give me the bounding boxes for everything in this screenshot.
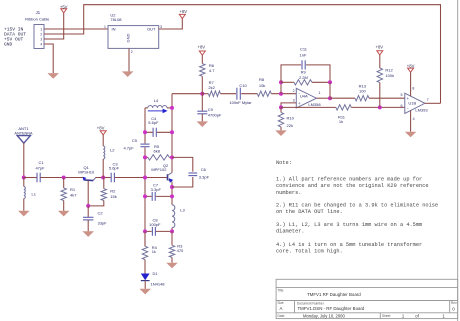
svg-text:C6: C6 <box>201 167 207 172</box>
node C7 left <box>143 194 147 198</box>
ground R3 <box>166 263 178 269</box>
ground U1B <box>405 132 417 138</box>
power +8V R6 <box>199 51 205 55</box>
wire U4A output <box>316 97 330 99</box>
svg-text:2.2M: 2.2M <box>299 75 308 80</box>
svg-text:C2: C2 <box>98 210 104 215</box>
svg-text:15k: 15k <box>110 194 116 199</box>
power +8V R12 <box>377 51 383 55</box>
capacitor C3 5.6pF <box>110 173 112 183</box>
ground L1 <box>18 211 30 217</box>
svg-text:J1: J1 <box>36 10 41 15</box>
svg-text:1k: 1k <box>339 119 343 124</box>
resistor R1 4k7 <box>63 178 65 189</box>
node C7 right <box>170 194 174 198</box>
power +5V <box>61 9 67 13</box>
diode D1 1N4148 <box>141 274 150 281</box>
node C4 right <box>170 130 174 134</box>
node output/x330 <box>328 96 332 100</box>
svg-text:LM393: LM393 <box>415 108 428 113</box>
capacitor C11 1nF loop <box>281 65 330 82</box>
svg-text:3: 3 <box>40 37 42 41</box>
svg-text:GND: GND <box>4 42 13 48</box>
node C4 left <box>143 130 147 134</box>
svg-text:R2: R2 <box>110 188 116 193</box>
svg-text:6: 6 <box>401 104 403 108</box>
node C8 right <box>170 229 174 233</box>
resistor R8 10k <box>241 93 257 95</box>
svg-text:+8V: +8V <box>376 45 384 50</box>
wire U4A pin3 <box>281 103 296 108</box>
tank left rail <box>144 108 146 246</box>
svg-text:D1: D1 <box>153 271 159 276</box>
wire DATA OUT loop top <box>44 5 441 104</box>
svg-text:4700pF: 4700pF <box>208 113 222 118</box>
svg-text:Sheet: Sheet <box>382 314 390 318</box>
wire RF input row <box>24 177 37 179</box>
svg-text:2: 2 <box>40 32 42 36</box>
svg-text:Title: Title <box>278 288 284 292</box>
svg-text:C10: C10 <box>239 83 247 88</box>
svg-text:100: 100 <box>359 89 366 94</box>
resistor R3 470 <box>171 231 173 245</box>
regulator U2 78L08 <box>108 26 159 49</box>
node feedback left <box>279 80 283 84</box>
resistor R7 2k2 <box>202 93 208 95</box>
ground J1 <box>47 73 59 79</box>
resistor R2 15k <box>103 178 105 189</box>
resistor R11 1k row <box>281 106 336 108</box>
wire U2 GND <box>128 49 130 72</box>
svg-text:of: of <box>415 314 419 319</box>
svg-text:3.) L1, L2, L3 are 3 turns 1mm: 3.) L1, L2, L3 are 3 turns 1mm wire on a… <box>276 222 422 228</box>
svg-text:5.6pF: 5.6pF <box>148 120 159 125</box>
svg-text:Rev: Rev <box>451 301 457 305</box>
node Q2 gate <box>143 176 147 180</box>
resistor R9 2.2M <box>294 80 312 85</box>
svg-text:L3: L3 <box>180 207 185 212</box>
resistor R6 4.7 <box>201 55 203 63</box>
wire C3 to tank <box>115 177 145 179</box>
ground U2 <box>122 71 134 77</box>
svg-text:47pF: 47pF <box>35 165 45 170</box>
node R9 right <box>328 80 332 84</box>
wire R8 node up to feedback <box>280 82 282 93</box>
ground D1 <box>139 289 151 295</box>
resistor R5 6k8 <box>148 155 170 160</box>
svg-text:4.7pF: 4.7pF <box>123 146 134 151</box>
node antenna/L1 <box>22 176 26 180</box>
resistor R10 22k <box>280 107 282 112</box>
capacitor C8 100pF <box>145 230 172 232</box>
svg-text:GND: GND <box>126 33 131 42</box>
svg-text:78L08: 78L08 <box>110 17 122 22</box>
inductor L3 <box>172 205 175 228</box>
capacitor C6 3.3pF loop <box>172 157 193 187</box>
svg-text:22k: 22k <box>287 123 293 128</box>
L4 tuning arrow <box>148 110 163 112</box>
svg-text:1N4148: 1N4148 <box>151 282 166 287</box>
page border right <box>457 0 459 321</box>
svg-text:33pF: 33pF <box>98 220 108 225</box>
node L4 right <box>170 106 174 110</box>
svg-text:R1: R1 <box>70 187 76 192</box>
svg-text:3.3pF: 3.3pF <box>151 187 162 192</box>
svg-text:convience and are not the orig: convience and are not the original K20 r… <box>276 183 429 189</box>
ground C2 <box>82 231 94 237</box>
wire +5V OUT <box>44 13 64 39</box>
svg-text:5.6pF: 5.6pF <box>109 166 120 171</box>
svg-text:+8V: +8V <box>180 9 188 14</box>
svg-text:100k: 100k <box>385 73 394 78</box>
node A detector <box>200 92 204 96</box>
svg-text:1: 1 <box>104 25 106 29</box>
svg-text:U1B: U1B <box>408 100 416 105</box>
svg-text:R8: R8 <box>259 77 265 82</box>
node L2/collector <box>101 176 105 180</box>
capacitor C9 4700pF <box>201 94 203 111</box>
svg-text:+: + <box>298 101 301 106</box>
svg-text:R10: R10 <box>287 116 295 121</box>
svg-text:numbers.: numbers. <box>276 190 301 196</box>
connector J1 Ribbon Cable <box>34 25 44 49</box>
svg-text:TMFV1.DSN - RF Daughter Board: TMFV1.DSN - RF Daughter Board <box>298 306 365 311</box>
svg-text:-: - <box>407 106 409 111</box>
node Q2 source <box>170 185 174 189</box>
node R8 / pin2 <box>279 92 283 96</box>
svg-text:+8V: +8V <box>198 44 206 49</box>
svg-text:5: 5 <box>401 93 403 97</box>
capacitor C7 3.3pF <box>145 195 172 197</box>
svg-text:7: 7 <box>427 98 429 102</box>
tank right rail <box>171 94 173 205</box>
op-amp U4A LM358 <box>296 88 316 108</box>
wire output row to R13 <box>330 97 355 99</box>
svg-text:2k2: 2k2 <box>208 85 215 90</box>
wire U1B vcc <box>410 72 412 96</box>
svg-text:L1: L1 <box>32 191 37 196</box>
inductor L1 <box>23 178 25 187</box>
svg-text:3.3pF: 3.3pF <box>199 174 210 179</box>
svg-text:Monday, July 10, 2000: Monday, July 10, 2000 <box>303 314 345 319</box>
wire Q1 collector row <box>95 177 110 179</box>
resistor R4 1k <box>144 231 146 246</box>
capacitor C1 47pF <box>36 173 38 183</box>
svg-text:C5: C5 <box>132 138 138 143</box>
svg-text:4k7: 4k7 <box>70 193 77 198</box>
svg-text:ANT1: ANT1 <box>18 126 29 131</box>
capacitor C2 33pF <box>87 206 89 217</box>
svg-text:2.) R11 can be changed to a 3.: 2.) R11 can be changed to a 3.9k to elim… <box>276 203 438 209</box>
ground C9 <box>197 121 209 127</box>
power +8V U2 <box>179 14 185 18</box>
resistor R13 100 <box>355 96 369 101</box>
node R5 left <box>143 155 147 159</box>
svg-text:6k8: 6k8 <box>153 148 160 153</box>
svg-text:C11: C11 <box>300 47 308 52</box>
svg-text:OUT: OUT <box>147 26 156 31</box>
node C8 left <box>143 229 147 233</box>
svg-text:1: 1 <box>442 314 445 319</box>
svg-text:L4: L4 <box>154 98 159 103</box>
svg-text:IN: IN <box>112 27 116 32</box>
svg-text:TMFV1 RF Daughter Board: TMFV1 RF Daughter Board <box>307 292 361 297</box>
wire J1 GND <box>44 44 53 73</box>
svg-text:core. Total 1cm high.: core. Total 1cm high. <box>276 249 343 255</box>
wire detector top row <box>172 93 202 95</box>
svg-text:1.) All part reference numbers: 1.) All part reference numbers are made … <box>276 177 422 183</box>
svg-text:MPF102: MPF102 <box>151 167 167 172</box>
svg-text:1: 1 <box>40 27 42 31</box>
resistor R12 100k <box>379 55 381 68</box>
op-amp U1B LM393 <box>405 93 425 113</box>
svg-text:Document Number: Document Number <box>297 302 325 306</box>
svg-text:+8V: +8V <box>97 125 105 130</box>
svg-text:4: 4 <box>40 42 42 46</box>
svg-text:MPSH10: MPSH10 <box>78 170 95 175</box>
ground R10 <box>275 130 287 136</box>
svg-text:on the DATA OUT line.: on the DATA OUT line. <box>276 209 343 215</box>
svg-text:470: 470 <box>177 248 184 253</box>
svg-text:Note:: Note: <box>276 160 292 166</box>
svg-text:LM358: LM358 <box>308 102 321 107</box>
svg-text:L2: L2 <box>110 147 115 152</box>
svg-text:1k: 1k <box>152 249 156 254</box>
svg-text:Date:: Date: <box>278 314 286 318</box>
svg-text:3: 3 <box>293 99 295 103</box>
svg-text:10k: 10k <box>259 83 265 88</box>
svg-text:4.) L4 is 1 turn on a 5mm tune: 4.) L4 is 1 turn on a 5mm tuneable trans… <box>276 242 422 248</box>
svg-text:+8V: +8V <box>407 63 415 68</box>
svg-text:Ribbon Cable: Ribbon Cable <box>25 17 50 22</box>
svg-text:1nF: 1nF <box>300 53 307 58</box>
svg-text:Size: Size <box>278 301 284 305</box>
wire U1B gnd <box>410 110 412 131</box>
wire antenna to RF node <box>23 143 25 178</box>
ground R1 <box>58 211 69 217</box>
svg-text:1: 1 <box>402 314 405 319</box>
wire U2 OUT to +8V <box>159 19 183 29</box>
svg-text:100pF: 100pF <box>149 222 161 227</box>
svg-text:2: 2 <box>131 50 133 54</box>
svg-text:4: 4 <box>413 117 415 121</box>
capacitor C10 100nF Mylar <box>236 88 238 100</box>
wire U1B output <box>425 102 441 104</box>
svg-text:8: 8 <box>412 87 414 91</box>
svg-text:1: 1 <box>319 91 321 95</box>
node R12 bottom <box>378 105 382 109</box>
svg-text:diameter.: diameter. <box>276 229 305 235</box>
inductor L2 from +8V <box>100 131 106 135</box>
svg-text:100nF Mylar: 100nF Mylar <box>229 100 252 105</box>
svg-text:U4A: U4A <box>300 94 308 99</box>
inductor L4 tunable <box>145 107 148 109</box>
power +8V U1B <box>408 68 414 72</box>
svg-text:C9: C9 <box>208 107 214 112</box>
svg-text:A: A <box>280 306 283 311</box>
svg-text:R12: R12 <box>385 68 393 73</box>
capacitor C4 5.6pF <box>145 131 172 133</box>
capacitor C5 4.7pF <box>140 143 149 145</box>
svg-text:+: + <box>406 96 409 101</box>
node Q1 emitter/C2 <box>86 204 90 208</box>
title block <box>276 279 458 318</box>
svg-text:2: 2 <box>293 89 295 93</box>
node R1 top <box>62 176 66 180</box>
wire C1 to Q1 base <box>40 177 83 179</box>
wire +15V to U2 IN <box>44 28 108 30</box>
svg-text:0: 0 <box>452 306 455 311</box>
svg-text:4.7: 4.7 <box>209 68 215 73</box>
node pin3/R11 row <box>279 105 283 109</box>
svg-text:+5V: +5V <box>60 4 68 9</box>
node R5 right <box>170 155 174 159</box>
